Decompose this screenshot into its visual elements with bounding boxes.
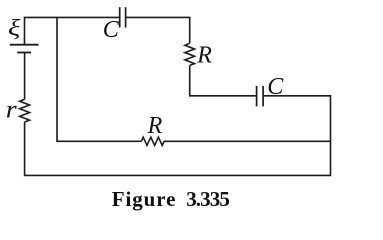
svg-text:Figure3.335: Figure3.335 xyxy=(112,187,230,211)
svg-text:ξ: ξ xyxy=(8,15,21,41)
svg-text:R: R xyxy=(147,113,163,139)
svg-text:C: C xyxy=(267,74,284,100)
svg-text:R: R xyxy=(196,42,212,68)
svg-text:C: C xyxy=(103,17,120,43)
svg-text:r: r xyxy=(6,95,18,123)
